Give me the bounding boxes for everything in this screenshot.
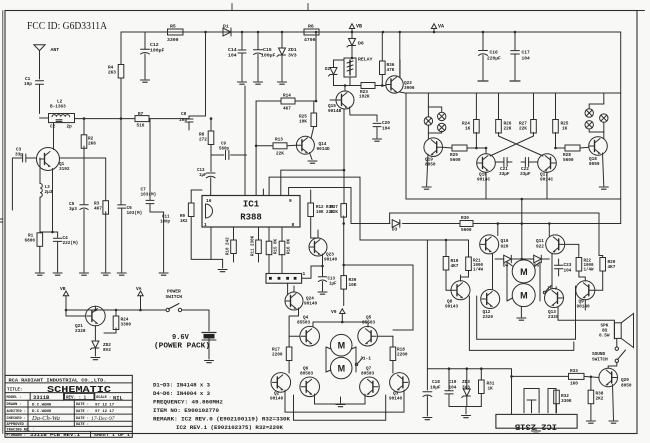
svg-text:C9: C9 <box>221 143 227 147</box>
wire C11 column <box>163 212 165 272</box>
label Q20 <box>621 378 632 389</box>
lamp LP4 <box>585 109 593 117</box>
svg-text:1K2: 1K2 <box>180 220 188 224</box>
ground R3 <box>101 273 110 275</box>
wire top rail VB/VA <box>121 31 621 33</box>
transistor Q21 <box>86 306 106 326</box>
motor M1b (steer bottom) <box>330 357 352 379</box>
ground C13b <box>318 292 327 294</box>
ground C5 <box>80 273 89 275</box>
svg-text:REV. : 1: REV. : 1 <box>66 396 87 400</box>
svg-text:R15 0K: R15 0K <box>274 238 278 254</box>
svg-text:922: 922 <box>536 245 544 250</box>
label R38 <box>596 392 604 402</box>
wire steer bottom bus <box>315 394 366 404</box>
svg-text:R33: R33 <box>570 369 578 374</box>
svg-text:220µF: 220µF <box>487 56 501 62</box>
resistor R19 <box>443 257 449 271</box>
transistor Q6 <box>300 377 320 397</box>
svg-text:VB: VB <box>60 286 66 292</box>
wire Q21 base <box>65 309 86 316</box>
svg-text:ITEM NO: E900102770: ITEM NO: E900102770 <box>153 408 219 414</box>
svg-text:1000: 1000 <box>584 264 595 268</box>
notes remark0 <box>153 417 291 423</box>
svg-text:22K: 22K <box>276 152 284 157</box>
capacitor C11 <box>160 216 171 225</box>
label R25 <box>561 122 569 132</box>
svg-text:3300: 3300 <box>167 37 179 43</box>
ground R1 <box>35 273 44 275</box>
capacitor C17 <box>511 31 530 80</box>
title block drawn row <box>7 403 115 407</box>
capacitor C19 <box>445 369 457 407</box>
svg-text:8050: 8050 <box>589 162 600 167</box>
svg-text:REMARK: IC2 REV.0 (E902100119): REMARK: IC2 REV.0 (E902100119) R32=330K <box>153 417 291 423</box>
label L3 <box>45 185 53 195</box>
ground row <box>462 416 471 418</box>
label R2 <box>88 137 96 147</box>
capacitor C1 <box>24 77 44 114</box>
label R21 <box>473 260 484 273</box>
wire Q13 emitter to spk <box>558 307 614 339</box>
label Q9 <box>577 300 591 310</box>
diode D1 <box>223 24 231 37</box>
svg-text:DATE :: DATE : <box>76 417 89 421</box>
wire Q8 connections <box>460 275 462 281</box>
svg-text:D1~D3: IN4148 x 3: D1~D3: IN4148 x 3 <box>153 383 210 389</box>
capacitor C12 <box>141 32 165 79</box>
resistor R17 <box>286 336 300 373</box>
resistor R1 <box>25 233 43 272</box>
label SOUND SWITCH <box>592 352 608 363</box>
notes frequency <box>153 400 223 406</box>
svg-text:5600: 5600 <box>563 158 574 163</box>
wire R22 to Q9 coll <box>579 272 585 281</box>
wire relay bottom <box>350 77 361 86</box>
wire spk to switch <box>616 338 618 346</box>
label R19 <box>451 259 459 269</box>
svg-text:2200: 2200 <box>272 353 283 358</box>
wire x413 drop <box>393 265 413 330</box>
label Q2 <box>270 392 284 402</box>
svg-text:2200: 2200 <box>397 353 408 358</box>
wire Q15 emitter/C20 <box>350 107 378 122</box>
wire Q15 base <box>330 99 336 101</box>
switch POWER SWITCH <box>166 304 182 312</box>
wire staircase Lc <box>289 188 351 196</box>
ground C18 <box>423 418 432 420</box>
svg-text:TITLE:: TITLE: <box>7 388 22 393</box>
title block title <box>7 385 112 395</box>
label R12 <box>316 206 334 215</box>
svg-text:M: M <box>520 267 528 277</box>
svg-text:3311B: 3311B <box>33 395 50 401</box>
svg-text:D.C.WONG: D.C.WONG <box>32 403 52 407</box>
svg-text:1/4W: 1/4W <box>584 268 595 273</box>
capacitor C7 <box>141 119 164 212</box>
svg-text:VA: VA <box>438 24 444 30</box>
svg-text:IC1: IC1 <box>243 200 260 210</box>
wire D3 bus y224 <box>351 223 621 225</box>
svg-text:R5: R5 <box>170 24 176 30</box>
wire IC1 stub x263 <box>262 189 264 196</box>
svg-text:80503: 80503 <box>361 372 375 377</box>
transistor Q1 <box>37 148 60 171</box>
resistor R37 <box>341 204 347 225</box>
resistor R30 <box>460 216 473 233</box>
wire IC2 feed <box>510 375 513 414</box>
resistor R25b <box>311 113 317 139</box>
title block grid <box>5 375 132 437</box>
title block approved row <box>7 423 89 427</box>
capacitor C4 <box>53 232 78 272</box>
title block audited row <box>7 410 115 414</box>
wire lamp column left <box>427 93 429 139</box>
capacitor C16 <box>479 31 502 80</box>
resistor R32 <box>554 390 560 413</box>
net VB top <box>349 24 362 39</box>
svg-text:P/DRAWN :: P/DRAWN : <box>7 433 26 438</box>
ground C12 <box>141 80 150 82</box>
wire R7 right <box>149 118 189 120</box>
svg-text:C13: C13 <box>328 278 336 282</box>
resistor R20 <box>600 258 606 272</box>
svg-text:R30: R30 <box>461 216 469 221</box>
wire R29 to node <box>467 147 486 150</box>
svg-text:97 12 17: 97 12 17 <box>95 410 115 414</box>
relay RELAY <box>344 57 373 78</box>
diode D6 <box>347 39 364 48</box>
label R16 <box>287 238 291 254</box>
resistor R27 <box>531 93 537 136</box>
svg-text:RELAY: RELAY <box>358 57 373 63</box>
wire R19 to Q8 base <box>446 271 452 291</box>
motor M2 (throttle top) <box>512 260 535 283</box>
svg-text:POWER: POWER <box>167 289 181 295</box>
coil L3 <box>40 158 42 232</box>
svg-text:16: 16 <box>206 198 212 204</box>
IC1 box <box>202 196 300 228</box>
registration tick left <box>0 219 3 222</box>
svg-text:1K: 1K <box>562 127 568 132</box>
wire Q22 emitter to rail93 <box>400 92 425 93</box>
svg-text:9.6V: 9.6V <box>172 334 190 342</box>
svg-text:R388: R388 <box>240 213 262 223</box>
IC1 pin8 <box>292 222 295 228</box>
label Q6 <box>300 367 314 377</box>
svg-text:22K: 22K <box>504 127 512 132</box>
label Q21 <box>75 324 86 334</box>
wire Q22 collector up <box>399 32 401 77</box>
svg-text:8: 8 <box>292 222 295 228</box>
resistor R13 <box>273 138 287 157</box>
svg-text:SCALE :: SCALE : <box>96 396 111 400</box>
svg-text:8V2: 8V2 <box>103 348 111 353</box>
resistor R36 <box>380 32 386 87</box>
svg-text:9014C: 9014C <box>477 178 491 183</box>
ground C17 <box>510 80 520 82</box>
wire motor loop <box>507 262 540 301</box>
label Q8 <box>445 300 459 310</box>
label Q16 <box>477 173 491 183</box>
wire IC1 pin1 gnd <box>211 227 223 259</box>
svg-text:C17: C17 <box>522 50 531 56</box>
diode D3 <box>392 220 400 233</box>
notes D4-D6 <box>153 391 210 397</box>
svg-text:10p: 10p <box>24 82 32 87</box>
resistor R33 <box>569 369 585 387</box>
motor M2b (throttle bottom) <box>512 284 535 307</box>
wire Q15 emitter to column <box>0 0 1 1</box>
svg-text:NIL: NIL <box>113 395 123 401</box>
wire Q9 emitter <box>584 300 586 310</box>
svg-text:C15: C15 <box>263 47 272 53</box>
svg-text:10K: 10K <box>349 283 357 288</box>
svg-text:R11 230K: R11 230K <box>252 235 256 256</box>
ground Q14 <box>308 161 317 163</box>
wire Q21 collector <box>94 306 97 311</box>
transistor Q16 <box>477 154 496 173</box>
svg-text:RCA RADIANT INDUSTRIAL CO.,LTD: RCA RADIANT INDUSTRIAL CO.,LTD. <box>9 378 107 383</box>
label Q15 <box>328 104 342 114</box>
battery 9.6V <box>202 333 216 341</box>
wire R24b bottom <box>104 332 116 334</box>
svg-text:ZD3: ZD3 <box>462 380 470 385</box>
wire Q1 emitter <box>52 169 54 233</box>
svg-text:MODEL :: MODEL : <box>7 396 22 400</box>
svg-text:3192: 3192 <box>59 167 70 172</box>
wire Q1 collector <box>53 140 55 150</box>
label Q14 <box>317 142 331 152</box>
svg-text:(POWER PACK): (POWER PACK) <box>154 343 210 351</box>
resistor R22 <box>576 258 582 272</box>
svg-text:Q20: Q20 <box>621 378 629 383</box>
svg-text:560p: 560p <box>219 148 230 152</box>
wire lamp column right <box>603 93 605 139</box>
wire gnd bus row <box>449 407 481 415</box>
IC2 231B <box>496 414 577 430</box>
svg-text:2p: 2p <box>67 125 73 130</box>
wire Q10 to Q12 <box>492 254 494 290</box>
ground Q18 <box>599 187 608 189</box>
resistor R31 <box>479 369 495 407</box>
wire flasher bottom <box>406 198 621 200</box>
wire Q11 to R22 <box>565 244 579 256</box>
transistor Q8 <box>451 281 470 300</box>
transistor Q18 <box>589 137 608 156</box>
wire lamp branch left <box>428 107 441 133</box>
svg-text:ANT: ANT <box>51 47 60 53</box>
resistor R25 <box>553 93 559 148</box>
ground C14 <box>238 82 247 84</box>
label ZD2 <box>103 343 111 353</box>
wire IC feed x246 <box>244 86 246 196</box>
wire switch to battery <box>182 310 209 331</box>
coil L2 tank <box>49 114 75 123</box>
wire gnd bus left <box>40 231 58 234</box>
wire switch to Q20 <box>608 363 617 369</box>
notes D1-D3 <box>153 383 210 389</box>
svg-text:9014B: 9014B <box>328 109 342 114</box>
svg-text:AUDITED :: AUDITED : <box>7 410 26 414</box>
transistor Q22 <box>386 76 403 93</box>
wire R23 to Q22 base <box>375 85 386 87</box>
wire bus y213 <box>390 213 599 256</box>
wire Q17 emitter <box>546 172 548 199</box>
net VA top <box>431 24 444 33</box>
capacitor C22 <box>520 158 538 178</box>
label Q22 <box>404 81 415 91</box>
svg-text:R22: R22 <box>584 260 592 264</box>
transistor Q17 <box>538 154 557 173</box>
wire battery gnd <box>208 338 210 359</box>
notes item no <box>153 408 219 414</box>
wire Q24 leads <box>289 286 298 336</box>
ground C15 <box>254 82 263 84</box>
lamp LP5 <box>585 121 593 129</box>
tank coil <box>52 115 70 117</box>
svg-text:100p: 100p <box>160 221 171 225</box>
resistor R15 <box>266 227 272 274</box>
svg-text:D4: D4 <box>503 264 509 269</box>
wire tank <box>40 117 136 120</box>
capacitor C23 <box>554 259 571 276</box>
label R37 <box>330 205 338 215</box>
svg-text:D2: D2 <box>325 68 331 72</box>
capacitor C15 <box>254 32 276 81</box>
transistor Q5 <box>358 326 378 346</box>
component X2 (resonator) <box>548 389 556 413</box>
svg-text:104: 104 <box>228 53 237 59</box>
transistor Q19 <box>424 138 443 157</box>
svg-text:10K: 10K <box>299 120 307 125</box>
svg-text:104: 104 <box>522 56 531 62</box>
capacitor C3 <box>12 148 36 211</box>
svg-text:D.C.WONG: D.C.WONG <box>32 410 52 414</box>
svg-text:C14: C14 <box>228 47 237 53</box>
svg-text:6800: 6800 <box>25 239 36 244</box>
wire R20 to Q9 base <box>595 272 603 291</box>
svg-text:B-1363: B-1363 <box>50 105 66 110</box>
registration tick top 2 <box>307 4 309 11</box>
resistor R8 <box>208 117 214 171</box>
label R17 <box>272 348 283 358</box>
resistor R9 <box>180 190 202 224</box>
svg-text:D3: D3 <box>392 228 398 233</box>
capacitor C21 <box>496 158 513 178</box>
title block tracing row <box>7 428 35 432</box>
svg-text:R13: R13 <box>275 138 283 143</box>
wire Q15-R37 column <box>343 109 345 204</box>
wire Q23 emitter <box>322 254 324 276</box>
svg-text:DATE :: DATE : <box>76 423 89 427</box>
wire steer top <box>313 321 368 327</box>
label R8 <box>199 133 207 143</box>
svg-text:VB: VB <box>356 24 362 30</box>
svg-text:C19: C19 <box>449 380 457 385</box>
svg-text:D1: D1 <box>223 24 229 30</box>
node flasher R25 junction <box>485 147 557 150</box>
motor M1 (steer top) <box>330 334 352 356</box>
tank cap C2 <box>50 120 72 130</box>
svg-text:3906: 3906 <box>404 86 415 91</box>
svg-text:DATE :: DATE : <box>76 403 89 407</box>
svg-text:102K: 102K <box>359 95 370 100</box>
svg-text:5600: 5600 <box>461 228 472 233</box>
label Q1 <box>59 162 70 172</box>
label battery <box>154 334 210 351</box>
wire x360 drop <box>359 177 361 223</box>
wire steer motor loop <box>326 347 356 372</box>
ground C16 <box>478 80 488 82</box>
wire motor feed <box>521 198 524 259</box>
svg-text:Q10: Q10 <box>501 239 509 244</box>
resistor R3 <box>94 201 109 272</box>
svg-text:SHEET 1 OF 1: SHEET 1 OF 1 <box>94 434 131 438</box>
wire VB drop to C18 <box>426 240 428 390</box>
svg-text:ZD1: ZD1 <box>288 47 297 53</box>
zener ZD1 <box>277 32 297 81</box>
ground steer <box>336 397 345 407</box>
wire R20 top <box>599 256 603 258</box>
svg-text:9: 9 <box>289 198 292 204</box>
svg-text:2320: 2320 <box>483 315 494 320</box>
svg-text:222(M): 222(M) <box>63 241 79 246</box>
svg-text:Q11: Q11 <box>536 239 544 244</box>
svg-text:17-Dec-97: 17-Dec-97 <box>91 416 115 422</box>
svg-text:33p: 33p <box>15 153 23 158</box>
label L2 <box>50 100 66 110</box>
diode D4 <box>495 255 523 268</box>
wire power rail <box>66 309 166 312</box>
connector J2 <box>266 271 306 283</box>
lamp LP2 <box>438 112 446 120</box>
resistor R26 <box>496 93 502 136</box>
label R11 <box>252 235 256 256</box>
connector J1-2 <box>543 286 557 294</box>
label SPK <box>599 324 610 339</box>
lamp LP6 <box>600 114 608 122</box>
svg-text:R7: R7 <box>138 112 144 117</box>
svg-text:C11: C11 <box>162 216 170 220</box>
FCC ID text <box>27 21 107 32</box>
svg-text:2K2: 2K2 <box>596 397 604 402</box>
transistor Q4 <box>300 326 320 346</box>
svg-text:R9: R9 <box>180 215 186 219</box>
net VA lower <box>136 286 143 310</box>
ground Q19 <box>422 187 431 189</box>
wire R9 gnd <box>191 218 211 260</box>
wire bridge box B <box>469 296 573 350</box>
label R32 <box>561 394 572 404</box>
svg-text:2µ3: 2µ3 <box>45 190 53 195</box>
switch SOUND SWITCH <box>615 347 625 362</box>
svg-text:5600: 5600 <box>450 158 461 163</box>
capacitor C9 <box>211 143 247 160</box>
svg-text:2320: 2320 <box>548 315 559 320</box>
wire R13 right <box>287 144 297 147</box>
svg-text:90140: 90140 <box>577 305 591 310</box>
label Q24 <box>304 297 318 307</box>
speaker SPK <box>614 314 633 348</box>
wire x351 drop <box>350 188 352 224</box>
resistor R10 <box>231 227 237 262</box>
wire J2 pin to Q24 <box>287 283 289 294</box>
title block model row <box>7 395 123 401</box>
label POWER SWITCH <box>166 289 183 301</box>
ground C6 <box>117 273 126 275</box>
svg-text:516: 516 <box>137 124 145 129</box>
